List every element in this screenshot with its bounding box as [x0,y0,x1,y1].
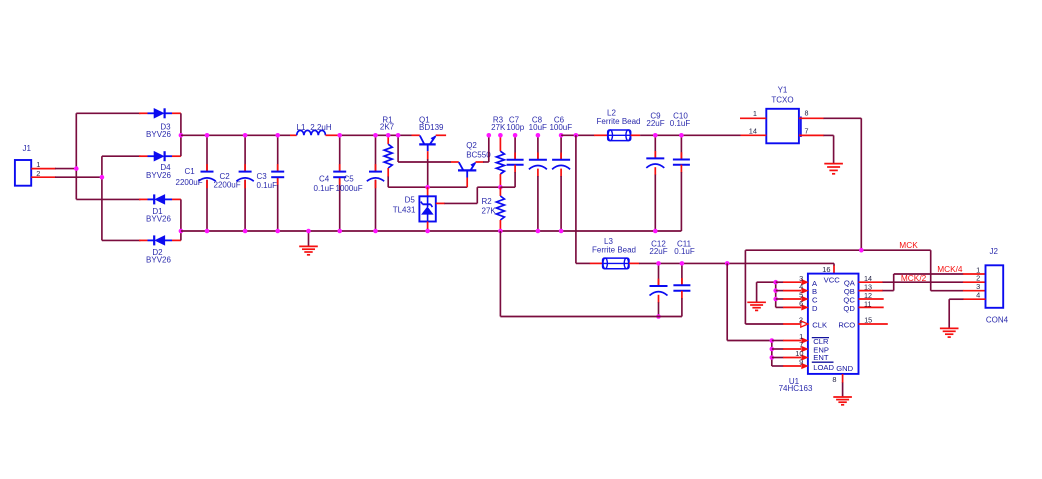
svg-text:TCXO: TCXO [771,96,793,105]
ground symbol main rail [299,229,318,255]
capacitor C8 10uF [529,133,547,233]
wire MCK net [745,250,930,324]
diode D3 BYV26 [139,108,181,118]
ground symbol U1 inputs [747,282,775,310]
svg-text:22uF: 22uF [646,119,664,128]
node MCK junction [859,248,864,253]
wire bottom ground rail [181,230,682,232]
label D5 TL431 [393,195,416,214]
node L3 branch tap [574,133,579,138]
svg-text:0.1uF: 0.1uF [674,247,695,256]
U1 pin names [812,276,856,373]
wire VCC rail to U1 pin16 [639,263,834,273]
svg-text:MCK: MCK [899,240,918,250]
connector J1 [15,144,32,186]
wire CLK from MCK [745,315,808,327]
svg-text:R2: R2 [482,197,493,206]
diode D1 BYV26 [139,194,181,204]
svg-text:QD: QD [843,304,855,313]
svg-text:VCC: VCC [824,276,841,285]
oscillator Y1 TCXO [766,109,801,144]
svg-text:Y1: Y1 [778,85,788,94]
svg-text:0.1uF: 0.1uF [314,184,335,193]
label C3 0.1uF [257,172,278,190]
label Q1 BD139 [419,116,444,132]
node bottom rail start [179,229,184,234]
ground symbol Y1 pin7 [824,163,843,174]
wire control pins bus CLR ENP ENT LOAD [727,263,808,368]
wire rail to Q2 collector [396,133,451,162]
svg-text:100p: 100p [506,123,524,132]
diode D2 BYV26 [139,235,181,245]
label D4 BYV26 [146,163,171,180]
svg-text:MCK/4: MCK/4 [937,264,963,274]
label CON4 [986,316,1009,325]
svg-text:LOAD: LOAD [813,363,834,372]
wire D2 row [102,239,141,241]
label C7 100p [506,116,524,132]
svg-text:9: 9 [799,358,803,367]
label R3 27K [491,116,506,132]
label L2 Ferrite Bead [596,109,640,127]
svg-text:L3: L3 [604,237,613,246]
label C6 100uF [549,116,572,132]
label R1 2K7 [380,116,395,132]
shunt regulator D5 TL431 [419,187,500,231]
wire diode cathode vertical top [180,113,182,156]
wire Q2 emitter to rail [483,133,491,162]
label C11 0.1uF [674,240,695,257]
resistor R3 27K [496,133,504,187]
svg-text:2.2uH: 2.2uH [310,123,332,132]
wire D1 row [76,198,140,200]
label J2 [990,247,999,256]
label C10 0.1uF [670,111,691,128]
inductor L1 2.2uH [290,130,340,135]
node J1 pin2 junction [100,175,105,180]
svg-text:7: 7 [805,126,809,135]
svg-text:Ferrite Bead: Ferrite Bead [592,246,636,255]
capacitor C1 2200uF [198,133,215,233]
capacitor C12 22uF [650,261,668,319]
wire left vertical bus (D3-D1) [75,113,77,199]
svg-text:J2: J2 [990,247,999,256]
capacitor C9 22uF [646,133,664,233]
wire J2 pin4 to ground [949,299,985,328]
svg-text:TL431: TL431 [393,205,416,214]
resistor R2 27K [496,187,504,233]
svg-text:2K7: 2K7 [380,123,395,132]
wire D4 row [102,155,141,157]
svg-text:2200uF: 2200uF [176,178,203,187]
U1 input pin numbers [799,274,803,308]
svg-text:27K: 27K [491,123,506,132]
svg-text:0.1uF: 0.1uF [257,181,278,190]
svg-text:RCO: RCO [838,320,855,329]
wire R1 bottom to base bus [388,186,467,188]
label D1 BYV26 [146,207,171,224]
capacitor C2 2200uF [236,133,253,233]
svg-text:C2: C2 [220,172,231,181]
svg-text:0.1uF: 0.1uF [670,119,691,128]
wire rail C6 to L2 [561,134,594,136]
svg-text:C5: C5 [344,174,355,183]
label C12 22uF [649,240,667,257]
connector J2 CON4 [986,265,1004,308]
label U1 74HC163 [779,377,813,393]
svg-text:10uF: 10uF [529,123,547,132]
net label MCK/4 [937,264,963,274]
capacitor C7 100p [500,133,523,187]
label C2 2200uF [214,172,241,190]
svg-text:2200uF: 2200uF [214,181,241,190]
svg-text:GND: GND [836,364,853,373]
svg-text:BC550: BC550 [466,151,491,160]
node top rail start [179,133,184,138]
svg-text:BYV26: BYV26 [146,130,171,139]
svg-text:C3: C3 [257,172,268,181]
net label MCK [899,240,918,250]
svg-text:BYV26: BYV26 [146,214,171,223]
wire right vertical bus (D4-D2) [101,156,103,240]
U1 control pin numbers [795,332,803,367]
Y1 pin 7 wire [799,126,834,163]
svg-text:CLK: CLK [812,320,827,329]
capacitor C3 0.1uF [271,133,284,233]
label Q2 BC550 [466,141,491,160]
svg-text:D: D [812,304,818,313]
svg-text:Ferrite Bead: Ferrite Bead [596,117,640,126]
wire C12 C11 ground return [500,231,682,317]
U1 RCO stub [859,316,888,325]
ferrite bead L3 [590,258,640,269]
svg-text:ENT: ENT [813,353,829,362]
svg-text:BYV26: BYV26 [146,255,171,264]
svg-text:C4: C4 [319,174,330,183]
svg-text:15: 15 [864,316,872,325]
resistor R1 2K7 [384,133,392,187]
svg-text:16: 16 [822,265,830,274]
wire J1 pin1 to node [31,168,76,170]
svg-text:100uF: 100uF [549,123,572,132]
ground symbol J2 pin4 [940,328,959,337]
transistor Q1 BD139 [412,135,447,187]
wire L3 branch vertical [576,135,590,263]
svg-text:74HC163: 74HC163 [779,384,813,393]
label C1 2200uF [176,167,203,187]
U1 QD stub [859,299,884,308]
label Y1 TCXO [771,85,793,104]
label C4 0.1uF [314,174,335,193]
node VCC tap to control pins [725,261,730,266]
svg-text:C1: C1 [185,167,196,176]
capacitor C11 0.1uF [673,261,690,316]
counter U1 74HC163 [808,274,859,374]
svg-text:6: 6 [799,299,803,308]
capacitor C6 100uF [552,133,570,233]
J2 pin numbers [976,265,980,299]
svg-text:11: 11 [864,299,871,308]
node Q1 base junction [425,185,430,190]
svg-text:BYV26: BYV26 [146,171,171,180]
Y1 pin 1 stub [740,109,766,118]
svg-text:14: 14 [749,126,757,135]
svg-text:4: 4 [976,291,980,300]
net label MCK/2 [901,273,927,283]
diode D4 BYV26 [139,151,181,161]
J1 pin 1 label [36,160,40,169]
label L3 Ferrite Bead [592,237,636,255]
capacitor C5 1000uF [367,133,384,233]
label L1 2.2uH [297,123,332,132]
wire top rail to L1 [181,134,290,136]
U1 QC stub [859,291,884,300]
node D5 bottom junction [425,229,430,234]
label R2 27K [482,197,497,216]
wire MCK to J2 pin3 [931,250,986,291]
wire diode anode vertical bottom [180,199,182,240]
svg-text:2: 2 [799,315,803,324]
U1 pin 16 number [822,265,830,274]
J1 pin 2 label [36,169,40,178]
Y1 pin 8 wire [799,109,861,251]
label D3 BYV26 [146,122,171,139]
wire top rail L1 to Q1 [340,134,412,136]
capacitor C4 0.1uF [333,133,346,233]
wire J1 pin2 to node [31,176,102,178]
svg-text:27K: 27K [482,207,497,216]
label D2 BYV26 [146,248,171,265]
svg-text:8: 8 [832,375,836,384]
node J1 pin1 junction [74,166,79,171]
Y1 pin 14 stub [741,126,767,135]
capacitor C10 0.1uF [673,133,690,231]
wire QA output MCK/2 [859,274,986,283]
wire D3 row [76,112,140,114]
label C5 1000uF [336,174,363,193]
node divider junction [498,185,503,190]
svg-text:1000uF: 1000uF [336,184,363,193]
svg-text:BD139: BD139 [419,123,444,132]
svg-text:CON4: CON4 [986,316,1009,325]
wire QB output MCK/4 [859,274,986,292]
label C9 22uF [646,111,664,128]
svg-text:22uF: 22uF [649,247,667,256]
wire rail L2 to Y1 [640,134,740,136]
svg-text:D5: D5 [405,195,416,204]
svg-text:1: 1 [753,109,757,118]
svg-text:8: 8 [805,109,809,118]
svg-text:J1: J1 [23,144,32,153]
label C8 10uF [529,116,547,132]
svg-text:Q2: Q2 [466,141,477,150]
ferrite bead L2 [594,130,640,141]
wire U1 input bus A-D [773,280,808,311]
U1 pin 8 ground [832,374,852,405]
svg-text:L1: L1 [297,123,306,132]
transistor Q2 BC550 [451,162,484,187]
